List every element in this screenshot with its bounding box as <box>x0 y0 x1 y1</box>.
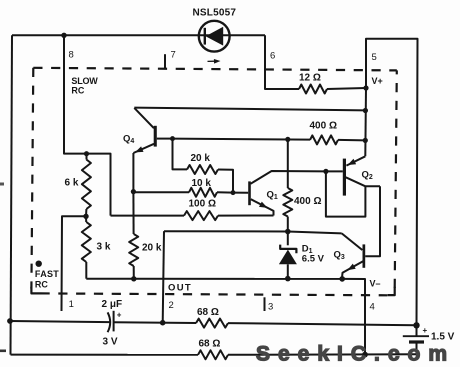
svg-text:10 k: 10 k <box>192 178 212 189</box>
svg-text:6: 6 <box>270 51 275 62</box>
svg-text:V–: V– <box>370 279 381 289</box>
svg-text:6.5 V: 6.5 V <box>302 254 325 265</box>
svg-text:400 Ω: 400 Ω <box>294 196 321 207</box>
svg-text:12 Ω: 12 Ω <box>299 73 321 84</box>
svg-text:SeekIC.com: SeekIC.com <box>256 343 455 366</box>
svg-text:2: 2 <box>169 300 174 311</box>
svg-text:4: 4 <box>370 302 375 313</box>
svg-text:RC: RC <box>35 279 48 289</box>
svg-text:3 k: 3 k <box>97 242 111 253</box>
svg-text:7: 7 <box>171 50 176 61</box>
svg-text:FAST: FAST <box>35 269 59 279</box>
svg-text:68 Ω: 68 Ω <box>197 307 219 318</box>
svg-text:2 μF: 2 μF <box>102 299 123 310</box>
svg-text:3 V: 3 V <box>103 336 118 347</box>
svg-text:SLOW: SLOW <box>71 76 98 86</box>
svg-text:3: 3 <box>268 302 273 313</box>
svg-text:+: + <box>117 311 122 320</box>
svg-text:V+: V+ <box>372 76 383 86</box>
svg-text:20 k: 20 k <box>191 153 211 164</box>
svg-text:+: + <box>423 326 428 335</box>
svg-text:400 Ω: 400 Ω <box>310 121 337 132</box>
svg-text:OUT: OUT <box>168 283 192 294</box>
svg-text:8: 8 <box>69 50 74 61</box>
svg-text:1: 1 <box>69 299 74 310</box>
svg-text:100 Ω: 100 Ω <box>189 199 216 210</box>
svg-text:6 k: 6 k <box>65 178 79 189</box>
svg-text:20 k: 20 k <box>142 243 162 254</box>
svg-text:5: 5 <box>372 52 377 63</box>
svg-text:RC: RC <box>71 86 84 96</box>
svg-text:1.5 V: 1.5 V <box>431 331 455 342</box>
svg-text:NSL5057: NSL5057 <box>193 7 237 18</box>
svg-text:68 Ω: 68 Ω <box>199 339 221 350</box>
